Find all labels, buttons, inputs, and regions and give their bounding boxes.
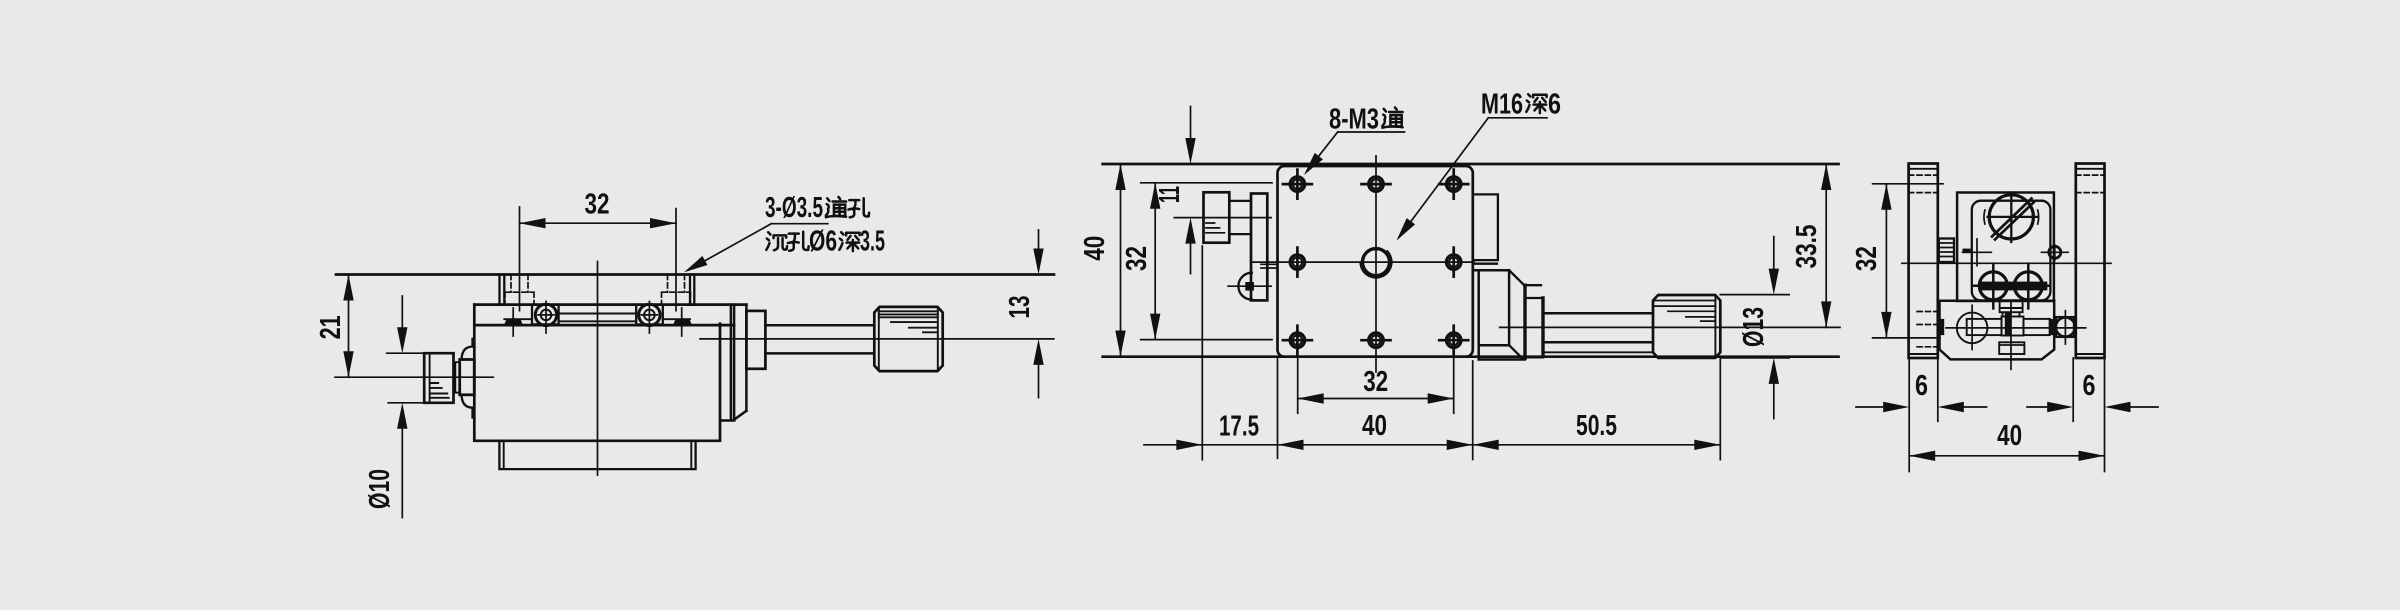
bottom vertical centerline bbox=[2010, 302, 2012, 369]
left knob centerline bbox=[335, 376, 493, 378]
dim phi13 bbox=[1720, 294, 1789, 296]
dim 32 bottom bbox=[1298, 398, 1454, 400]
dim 40 left bbox=[1120, 164, 1122, 357]
micrometer clamp block bbox=[746, 311, 765, 369]
svg-text:33.5: 33.5 bbox=[1791, 225, 1823, 269]
view centerline row bbox=[1902, 262, 2111, 264]
dim 6 left bbox=[1856, 406, 1883, 408]
svg-text:8-M3: 8-M3 bbox=[1329, 104, 1379, 136]
dim 6 right bbox=[2027, 406, 2047, 408]
spindle topview bbox=[1545, 313, 1654, 342]
svg-text:Ø6: Ø6 bbox=[809, 226, 837, 258]
left bracket block bbox=[1251, 194, 1267, 301]
svg-text:13: 13 bbox=[1004, 296, 1036, 319]
knob topview knurl bbox=[1655, 301, 1716, 322]
body split line bbox=[1939, 300, 2054, 303]
left flange bbox=[1909, 164, 1938, 359]
plate left edge steps bbox=[1261, 264, 1278, 268]
label chenkong phi6 shen3.5 bbox=[766, 232, 787, 250]
svg-text:11: 11 bbox=[1154, 186, 1186, 203]
M3 hole at 1453.7,340.2 bbox=[1446, 333, 1461, 348]
lower nut box bbox=[1999, 342, 2024, 354]
dim 32 left bbox=[1141, 183, 1272, 340]
knob topview bbox=[1653, 295, 1720, 358]
right screw circle bbox=[2049, 246, 2061, 258]
big screw bbox=[1989, 195, 2033, 239]
set screw mark right bbox=[674, 319, 692, 325]
micrometer centerline topview bbox=[1500, 326, 1840, 328]
stage body outline bbox=[474, 305, 720, 441]
left set screw mark bbox=[1963, 239, 1992, 266]
ext verticals bottom bbox=[1909, 358, 2104, 472]
leader 3-phi3.5 bbox=[688, 224, 828, 271]
right upper block bbox=[1474, 194, 1498, 263]
dim 11 bbox=[1190, 107, 1192, 274]
micrometer bracket bbox=[720, 305, 746, 421]
leader M16 bbox=[1399, 118, 1547, 238]
barrel bbox=[1938, 319, 1944, 335]
screw pocket left bbox=[532, 305, 559, 325]
dim 40 bottom bbox=[1909, 455, 2104, 457]
collar arcs bbox=[462, 339, 473, 360]
hole1 phi3.5 dashed bbox=[511, 275, 528, 293]
base plate inner edges bbox=[504, 441, 692, 469]
lower body outline bbox=[1940, 301, 2055, 360]
clamp slants bbox=[1509, 270, 1524, 358]
leader 8-M3 bbox=[1307, 132, 1405, 171]
svg-text:32: 32 bbox=[1121, 246, 1153, 271]
knob collar bbox=[460, 360, 475, 395]
svg-text:40: 40 bbox=[1362, 410, 1387, 442]
plate horizontal centerline bbox=[1252, 261, 1474, 263]
svg-text:17.5: 17.5 bbox=[1219, 411, 1259, 443]
boss half circle bbox=[1238, 273, 1252, 300]
svg-text:M16: M16 bbox=[1481, 89, 1523, 121]
M3 hole at 1297.4,262.1 bbox=[1290, 255, 1305, 270]
carriage bottom edge bbox=[474, 324, 734, 327]
hole2 phi3.5 dashed bbox=[668, 275, 685, 293]
arrows 17.5 / 40 / 50.5 bbox=[1176, 440, 1202, 450]
top surface line bbox=[336, 273, 1054, 276]
svg-text:40: 40 bbox=[1079, 236, 1111, 261]
clamp sleeve bbox=[1524, 285, 1543, 357]
main vertical centerline bbox=[597, 262, 599, 476]
M3 hole at 1376,184.1 bbox=[1369, 177, 1384, 192]
screw right bbox=[639, 304, 660, 325]
top plate left edge bbox=[500, 275, 505, 305]
set screw mark left bbox=[505, 319, 523, 325]
micrometer knob bbox=[874, 307, 942, 371]
svg-text:3.5: 3.5 bbox=[860, 226, 885, 258]
M3 hole at 1376,340.2 bbox=[1369, 333, 1384, 348]
bottom long line bbox=[1103, 355, 1839, 358]
left knob end block bbox=[1939, 239, 1954, 263]
gib lines bbox=[504, 314, 690, 322]
svg-text:32: 32 bbox=[585, 189, 610, 221]
svg-text:6: 6 bbox=[2083, 370, 2096, 402]
dim 33.5 bbox=[1825, 164, 1827, 327]
top long line bbox=[1103, 163, 1839, 166]
left knob topview bbox=[1204, 192, 1230, 242]
base plate bbox=[499, 441, 695, 469]
upper connector box bbox=[2000, 301, 2023, 317]
dim 32 right bbox=[1873, 184, 1943, 338]
fat cross circles bbox=[1979, 272, 2007, 300]
svg-text:3-Ø3.5: 3-Ø3.5 bbox=[765, 192, 823, 224]
svg-text:6: 6 bbox=[1915, 370, 1928, 402]
hole1 counterbore dashed bbox=[505, 292, 534, 304]
screw left bbox=[535, 304, 556, 325]
dim phi10 bbox=[387, 352, 425, 354]
top plate right edge bbox=[690, 275, 694, 305]
svg-text:Ø13: Ø13 bbox=[1738, 307, 1770, 347]
left knob bbox=[424, 353, 453, 403]
right flange bbox=[2076, 164, 2105, 359]
M3 hole at 1297.4,340.2 bbox=[1290, 333, 1305, 348]
knob knurl bbox=[879, 311, 938, 332]
upper body inner rounded rect bbox=[1972, 201, 2051, 301]
micrometer centerline bbox=[700, 338, 1054, 340]
left knob centerline bbox=[1174, 217, 1271, 219]
M3 hole at 1453.7,184.1 bbox=[1446, 177, 1461, 192]
bottom ext lines bbox=[1202, 246, 1720, 460]
dim 13 bbox=[1038, 230, 1040, 398]
svg-text:32: 32 bbox=[1363, 366, 1388, 398]
micrometer clamp front bbox=[1474, 270, 1524, 359]
svg-text:40: 40 bbox=[1997, 420, 2022, 452]
svg-text:21: 21 bbox=[315, 315, 347, 339]
M16 center hole bbox=[1363, 249, 1390, 276]
svg-text:32: 32 bbox=[1851, 246, 1883, 271]
svg-text:50.5: 50.5 bbox=[1576, 410, 1617, 442]
left knob neck bbox=[1229, 201, 1250, 234]
M3 hole at 1453.7,262.1 bbox=[1446, 255, 1461, 270]
dim 32 bbox=[520, 207, 677, 311]
micrometer spindle bbox=[765, 325, 874, 353]
platform plate bbox=[1278, 166, 1473, 357]
plate vertical centerline bbox=[1375, 156, 1377, 372]
upper body outer rect bbox=[1957, 193, 2054, 302]
screw pocket right bbox=[636, 305, 663, 325]
svg-text:6: 6 bbox=[1548, 89, 1561, 121]
body top edge bbox=[474, 303, 746, 306]
M3 hole at 1297.4,184.1 bbox=[1290, 177, 1305, 192]
svg-text:Ø10: Ø10 bbox=[364, 469, 396, 509]
end cap bbox=[2056, 317, 2074, 337]
left knob knurl bbox=[431, 383, 449, 398]
hole2 counterbore dashed bbox=[662, 292, 691, 304]
bottom dim line bbox=[1144, 444, 1720, 446]
knob step bbox=[455, 362, 459, 392]
dim 21 bbox=[348, 275, 350, 378]
